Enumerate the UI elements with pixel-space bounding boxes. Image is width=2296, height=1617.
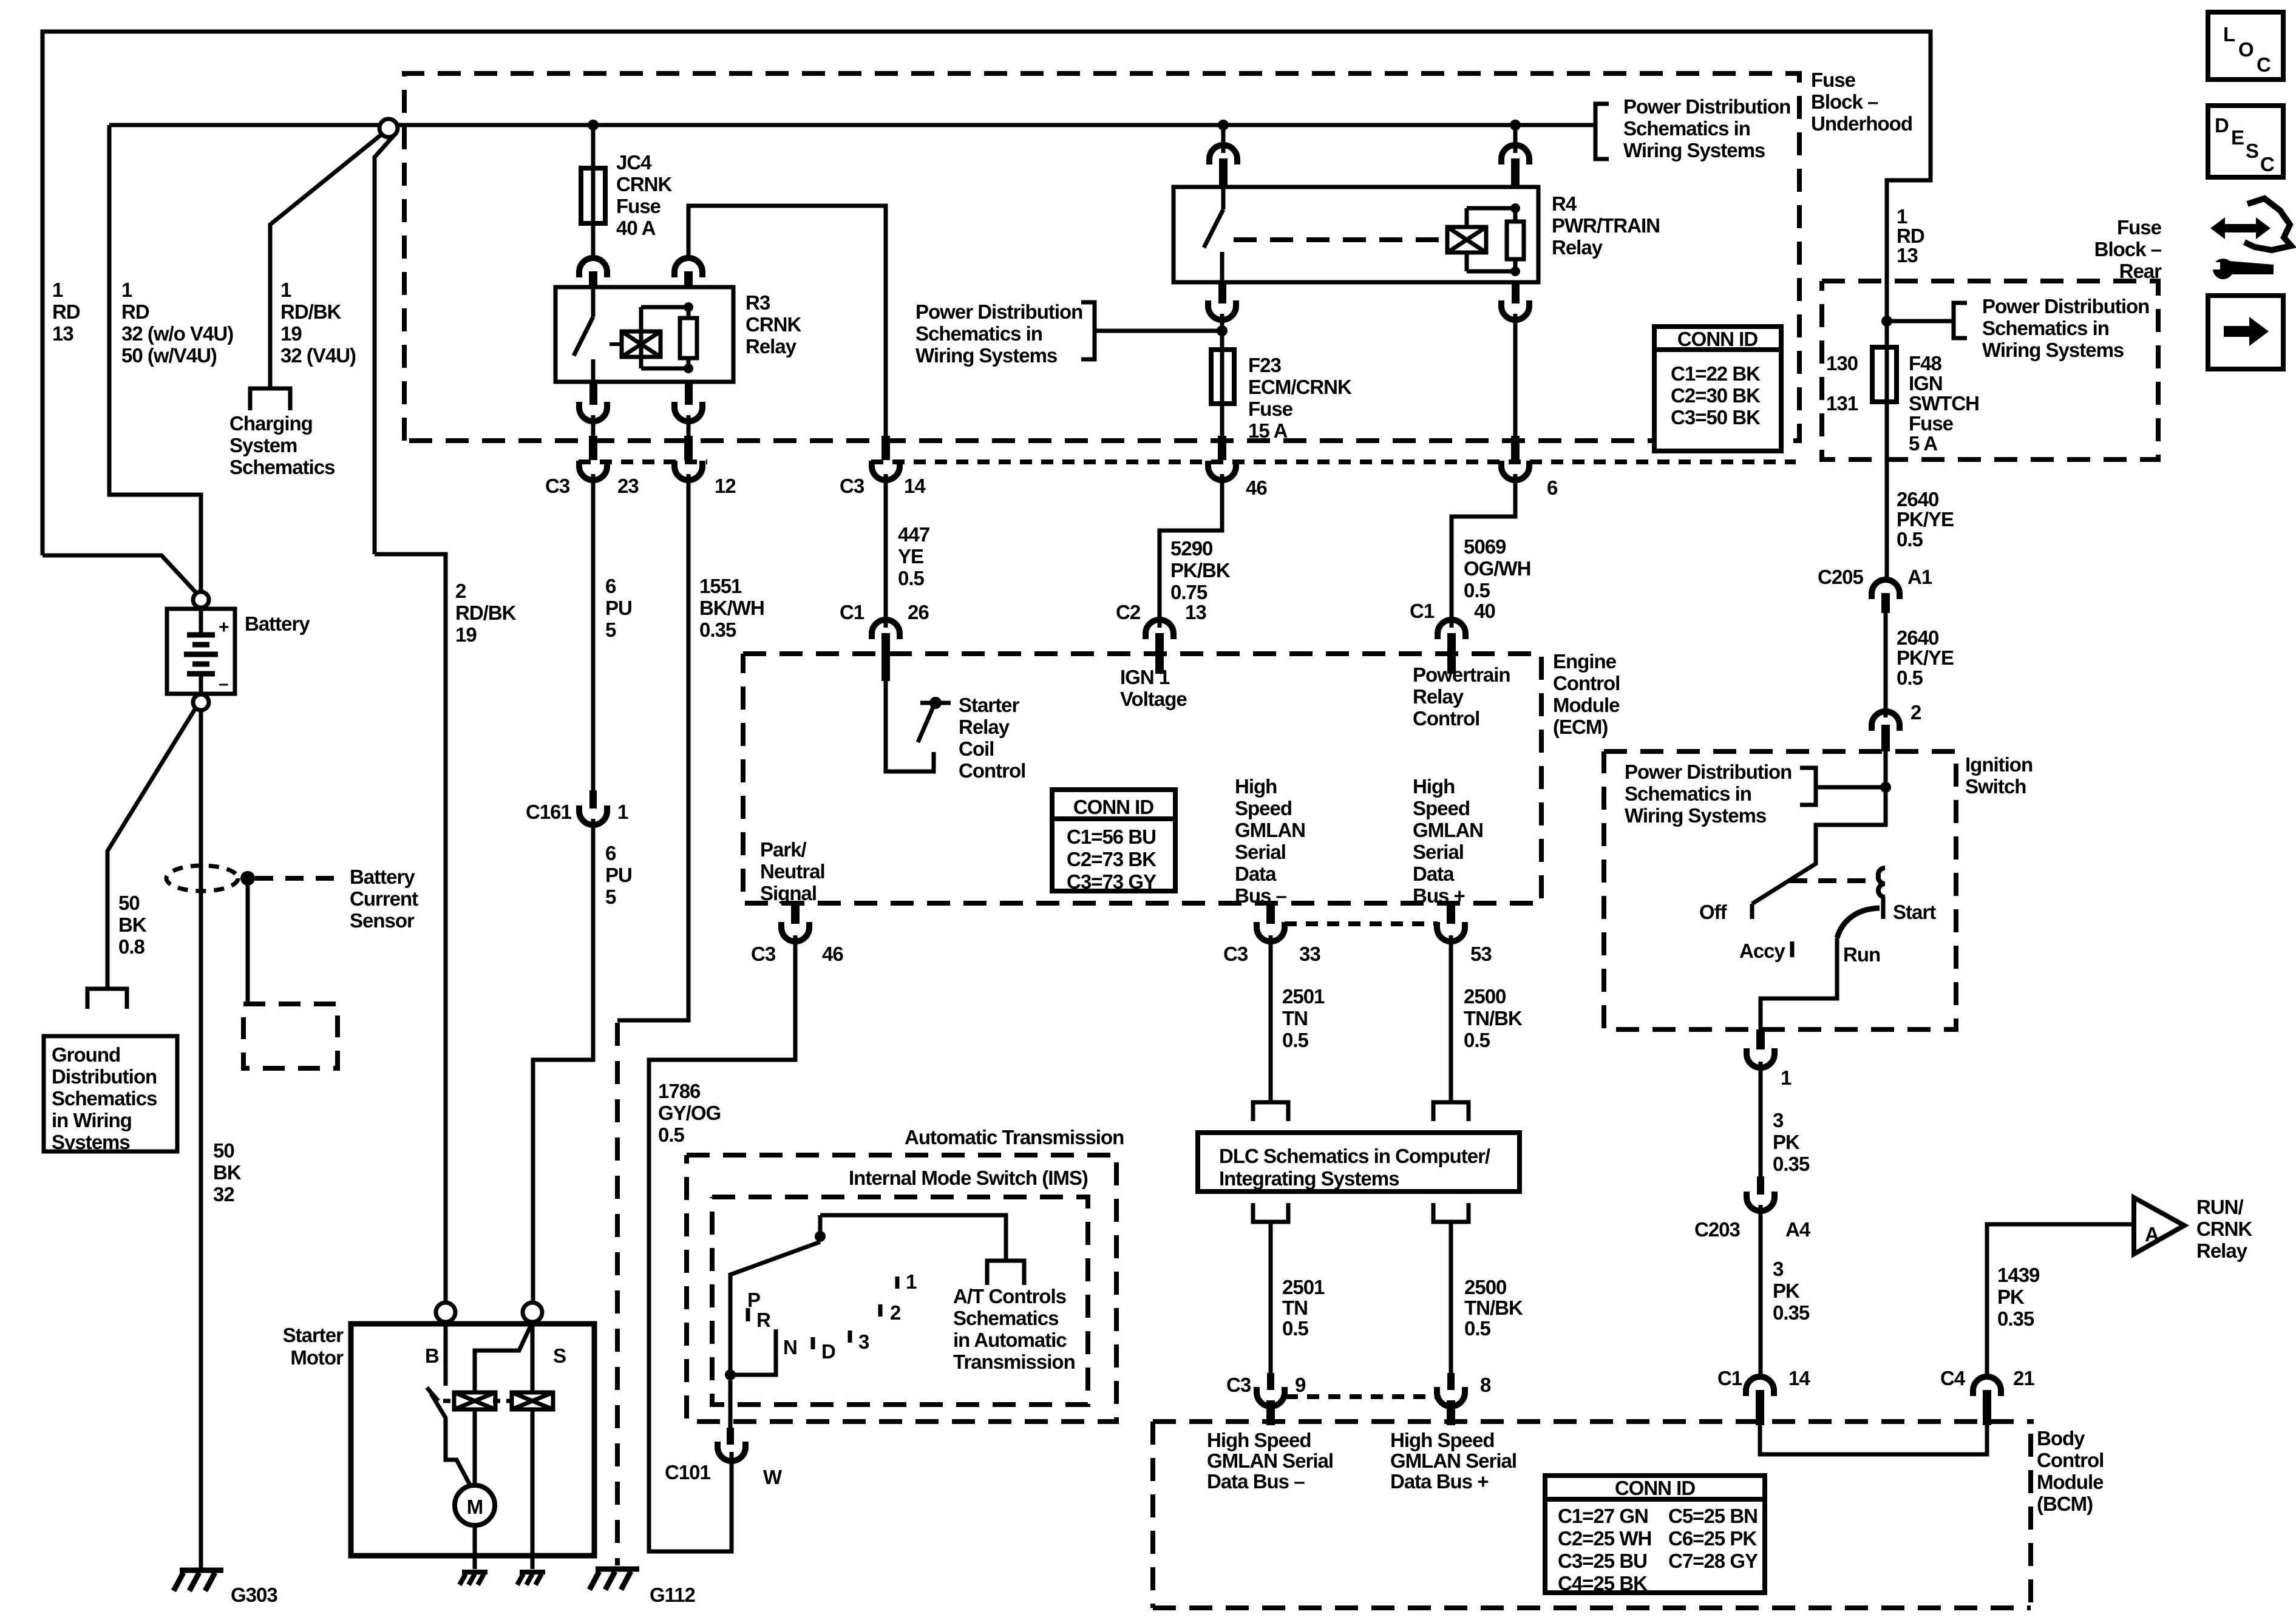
svg-text:C1: C1 — [840, 601, 864, 623]
svg-text:GMLAN Serial: GMLAN Serial — [1207, 1449, 1333, 1472]
svg-text:TN: TN — [1282, 1297, 1308, 1319]
svg-text:46: 46 — [822, 943, 843, 965]
svg-text:2501: 2501 — [1282, 985, 1325, 1008]
svg-text:Accy: Accy — [1739, 940, 1786, 962]
svg-text:1786: 1786 — [658, 1080, 701, 1102]
svg-text:C3: C3 — [840, 475, 864, 497]
svg-text:21: 21 — [2013, 1367, 2034, 1389]
svg-text:System: System — [229, 434, 297, 456]
svg-text:Fuse: Fuse — [616, 195, 661, 217]
svg-text:6: 6 — [605, 575, 616, 597]
svg-text:Bus –: Bus – — [1235, 884, 1287, 907]
svg-text:19: 19 — [280, 322, 302, 345]
svg-text:IGN: IGN — [1909, 372, 1943, 395]
svg-text:50: 50 — [118, 892, 140, 914]
svg-text:Automatic Transmission: Automatic Transmission — [905, 1126, 1124, 1148]
svg-text:50: 50 — [213, 1139, 234, 1162]
svg-text:C1=56 BU: C1=56 BU — [1067, 825, 1156, 848]
svg-text:Fuse: Fuse — [1909, 412, 1954, 435]
svg-text:Control: Control — [1413, 707, 1479, 730]
svg-text:R4: R4 — [1552, 192, 1577, 215]
svg-text:3: 3 — [1773, 1258, 1784, 1280]
svg-text:C4=25 BK: C4=25 BK — [1558, 1572, 1648, 1595]
svg-text:13: 13 — [1185, 601, 1206, 623]
svg-text:RD: RD — [121, 300, 149, 323]
svg-text:6: 6 — [1547, 476, 1558, 499]
svg-text:N: N — [783, 1336, 797, 1358]
svg-text:Run: Run — [1843, 943, 1880, 966]
svg-text:D: D — [821, 1340, 835, 1363]
svg-text:OG/WH: OG/WH — [1464, 557, 1530, 580]
svg-text:PK/BK: PK/BK — [1170, 559, 1231, 581]
svg-text:CRNK: CRNK — [616, 173, 672, 195]
svg-text:GY/OG: GY/OG — [658, 1102, 721, 1124]
svg-text:Power Distribution: Power Distribution — [1982, 295, 2149, 317]
svg-text:Systems: Systems — [52, 1131, 130, 1153]
svg-text:Rear: Rear — [2119, 260, 2162, 282]
svg-text:A: A — [2145, 1223, 2159, 1246]
svg-text:CONN ID: CONN ID — [1615, 1477, 1696, 1499]
svg-text:PK: PK — [1773, 1131, 1800, 1153]
svg-text:TN: TN — [1282, 1007, 1308, 1029]
svg-text:E: E — [2231, 126, 2244, 149]
svg-text:131: 131 — [1826, 392, 1858, 415]
svg-text:Power Distribution: Power Distribution — [915, 300, 1082, 323]
svg-text:2640: 2640 — [1897, 488, 1938, 510]
svg-text:0.5: 0.5 — [1464, 1317, 1491, 1340]
svg-text:C1: C1 — [1410, 600, 1435, 622]
svg-text:(BCM): (BCM) — [2037, 1493, 2093, 1515]
svg-text:Battery: Battery — [350, 866, 415, 888]
svg-text:PK/YE: PK/YE — [1897, 646, 1954, 669]
svg-text:Wiring Systems: Wiring Systems — [915, 344, 1057, 367]
svg-text:13: 13 — [1897, 244, 1918, 266]
svg-text:14: 14 — [904, 475, 926, 497]
svg-text:5290: 5290 — [1170, 537, 1212, 560]
svg-text:Start: Start — [1893, 901, 1936, 923]
svg-text:1439: 1439 — [1997, 1264, 2040, 1286]
svg-text:Schematics in: Schematics in — [1623, 117, 1750, 140]
svg-text:2: 2 — [890, 1301, 901, 1324]
svg-text:in Automatic: in Automatic — [953, 1329, 1067, 1351]
svg-text:5: 5 — [605, 886, 616, 908]
svg-text:Schematics in: Schematics in — [915, 322, 1042, 345]
svg-text:2500: 2500 — [1464, 985, 1506, 1008]
svg-text:BK: BK — [118, 914, 147, 936]
svg-text:0.75: 0.75 — [1170, 581, 1207, 603]
svg-text:Coil: Coil — [959, 737, 994, 760]
svg-text:0.35: 0.35 — [1773, 1301, 1810, 1324]
svg-text:0.35: 0.35 — [1773, 1153, 1810, 1175]
svg-text:S: S — [553, 1344, 566, 1367]
svg-text:Relay: Relay — [959, 716, 1010, 738]
svg-text:Ignition: Ignition — [1965, 753, 2033, 776]
svg-text:O: O — [2238, 38, 2254, 61]
svg-text:1: 1 — [906, 1270, 917, 1293]
svg-text:2: 2 — [455, 580, 466, 602]
svg-text:0.5: 0.5 — [1282, 1317, 1309, 1340]
svg-text:C3: C3 — [751, 943, 776, 965]
svg-text:C: C — [2257, 53, 2271, 76]
svg-text:L: L — [2223, 23, 2235, 46]
svg-text:32 (w/o V4U): 32 (w/o V4U) — [121, 322, 233, 345]
svg-text:F48: F48 — [1909, 352, 1942, 375]
svg-text:G303: G303 — [231, 1584, 277, 1606]
svg-text:Park/: Park/ — [760, 838, 807, 861]
svg-text:Fuse: Fuse — [2117, 216, 2162, 239]
svg-text:A1: A1 — [1907, 566, 1932, 588]
svg-text:Underhood: Underhood — [1811, 112, 1912, 135]
svg-text:R: R — [756, 1309, 771, 1331]
svg-text:C1=27 GN: C1=27 GN — [1558, 1505, 1648, 1527]
svg-text:6: 6 — [605, 842, 616, 864]
svg-text:High Speed: High Speed — [1207, 1429, 1311, 1451]
svg-text:Module: Module — [2037, 1471, 2104, 1493]
svg-text:PK: PK — [1997, 1286, 2025, 1308]
svg-text:Serial: Serial — [1235, 841, 1286, 863]
svg-text:(ECM): (ECM) — [1553, 716, 1608, 738]
svg-text:YE: YE — [898, 545, 923, 568]
svg-text:Data Bus –: Data Bus – — [1207, 1470, 1305, 1493]
svg-text:1: 1 — [121, 279, 132, 301]
svg-text:Sensor: Sensor — [350, 909, 415, 932]
svg-text:C1=22 BK: C1=22 BK — [1671, 362, 1761, 385]
svg-text:C3=50 BK: C3=50 BK — [1671, 406, 1761, 429]
svg-text:130: 130 — [1826, 352, 1858, 375]
svg-text:Charging: Charging — [229, 412, 313, 435]
svg-text:15 A: 15 A — [1248, 419, 1288, 442]
svg-text:32: 32 — [213, 1183, 234, 1205]
svg-text:C5=25 BN: C5=25 BN — [1668, 1505, 1758, 1527]
svg-text:C2=25 WH: C2=25 WH — [1558, 1527, 1651, 1550]
svg-text:R3: R3 — [746, 291, 770, 314]
svg-text:C6=25 PK: C6=25 PK — [1668, 1527, 1757, 1550]
svg-text:0.5: 0.5 — [658, 1124, 685, 1146]
svg-text:+: + — [219, 617, 229, 637]
svg-text:0.5: 0.5 — [1282, 1029, 1309, 1051]
svg-text:5: 5 — [605, 619, 616, 641]
svg-text:8: 8 — [1480, 1374, 1491, 1396]
svg-text:M: M — [467, 1496, 483, 1518]
svg-text:G112: G112 — [650, 1584, 696, 1606]
svg-text:C7=28 GY: C7=28 GY — [1668, 1550, 1758, 1572]
svg-text:Ground: Ground — [52, 1043, 120, 1066]
svg-text:1: 1 — [52, 279, 63, 301]
svg-text:447: 447 — [898, 523, 929, 546]
svg-text:GMLAN: GMLAN — [1235, 819, 1305, 841]
svg-text:2500: 2500 — [1464, 1276, 1506, 1298]
svg-text:40 A: 40 A — [616, 217, 656, 239]
svg-text:Power Distribution: Power Distribution — [1625, 761, 1792, 783]
svg-text:C2=30 BK: C2=30 BK — [1671, 384, 1761, 407]
svg-text:D: D — [2215, 114, 2229, 137]
svg-text:Bus +: Bus + — [1413, 884, 1465, 907]
svg-text:1551: 1551 — [699, 575, 742, 597]
svg-text:1: 1 — [1781, 1066, 1792, 1089]
svg-text:DLC Schematics in Computer/: DLC Schematics in Computer/ — [1219, 1145, 1490, 1167]
svg-text:PU: PU — [605, 597, 632, 619]
svg-text:3: 3 — [858, 1331, 869, 1353]
svg-text:PU: PU — [605, 864, 632, 886]
svg-text:CRNK: CRNK — [2196, 1218, 2252, 1240]
svg-text:0.35: 0.35 — [699, 619, 736, 641]
svg-text:RD: RD — [52, 300, 80, 323]
svg-text:13: 13 — [52, 322, 73, 345]
svg-text:0.5: 0.5 — [1464, 579, 1490, 602]
svg-text:C3=25 BU: C3=25 BU — [1558, 1550, 1647, 1572]
svg-text:46: 46 — [1246, 476, 1267, 499]
svg-text:5069: 5069 — [1464, 535, 1506, 558]
svg-text:High Speed: High Speed — [1390, 1429, 1495, 1451]
svg-text:Fuse: Fuse — [1811, 69, 1856, 91]
svg-text:TN/BK: TN/BK — [1464, 1007, 1523, 1029]
svg-text:Control: Control — [2037, 1449, 2104, 1471]
svg-text:A4: A4 — [1785, 1218, 1811, 1241]
svg-text:53: 53 — [1470, 943, 1492, 965]
svg-text:SWTCH: SWTCH — [1909, 392, 1979, 415]
svg-text:GMLAN Serial: GMLAN Serial — [1390, 1449, 1517, 1472]
svg-text:IGN 1: IGN 1 — [1120, 666, 1170, 688]
svg-text:Switch: Switch — [1965, 775, 2026, 798]
svg-text:RD/BK: RD/BK — [455, 602, 517, 624]
svg-text:Relay: Relay — [1552, 236, 1603, 259]
svg-text:2501: 2501 — [1282, 1276, 1325, 1298]
svg-text:Schematics: Schematics — [229, 456, 335, 478]
svg-text:C3: C3 — [1223, 943, 1248, 965]
svg-text:Data Bus +: Data Bus + — [1390, 1470, 1488, 1493]
svg-text:40: 40 — [1474, 600, 1495, 622]
svg-text:C4: C4 — [1940, 1367, 1966, 1389]
svg-text:Relay: Relay — [746, 335, 797, 358]
svg-text:Body: Body — [2037, 1427, 2085, 1449]
svg-text:BK/WH: BK/WH — [699, 597, 764, 619]
svg-text:1: 1 — [280, 279, 291, 301]
svg-text:Relay: Relay — [2196, 1239, 2248, 1262]
svg-text:26: 26 — [908, 601, 929, 623]
svg-text:2640: 2640 — [1897, 626, 1938, 649]
svg-text:GMLAN: GMLAN — [1413, 819, 1483, 841]
svg-text:Control: Control — [959, 759, 1025, 782]
svg-text:12: 12 — [715, 475, 736, 497]
svg-text:32 (V4U): 32 (V4U) — [280, 344, 356, 367]
svg-text:PWR/TRAIN: PWR/TRAIN — [1552, 214, 1660, 237]
svg-text:W: W — [763, 1466, 783, 1488]
svg-text:ECM/CRNK: ECM/CRNK — [1248, 376, 1352, 398]
svg-text:P: P — [747, 1289, 760, 1311]
svg-text:Fuse: Fuse — [1248, 398, 1293, 420]
svg-text:C2: C2 — [1116, 601, 1141, 623]
svg-text:C205: C205 — [1818, 566, 1864, 588]
svg-text:Serial: Serial — [1413, 841, 1464, 863]
svg-text:F23: F23 — [1248, 354, 1282, 376]
svg-text:C3: C3 — [545, 475, 570, 497]
svg-text:Schematics: Schematics — [953, 1307, 1058, 1329]
svg-text:0.5: 0.5 — [1897, 666, 1923, 689]
svg-text:Speed: Speed — [1235, 797, 1292, 819]
svg-text:C3=73 GY: C3=73 GY — [1067, 870, 1156, 893]
svg-text:9: 9 — [1295, 1374, 1306, 1396]
svg-text:Voltage: Voltage — [1120, 688, 1187, 710]
svg-text:1: 1 — [617, 801, 628, 823]
svg-text:Neutral: Neutral — [760, 860, 825, 883]
svg-text:C2=73 BK: C2=73 BK — [1067, 848, 1156, 870]
svg-text:5 A: 5 A — [1909, 432, 1937, 455]
svg-text:Relay: Relay — [1413, 685, 1464, 708]
svg-text:Integrating Systems: Integrating Systems — [1219, 1167, 1399, 1190]
svg-text:Wiring Systems: Wiring Systems — [1623, 139, 1765, 161]
svg-text:Battery: Battery — [245, 612, 310, 635]
svg-text:C3: C3 — [1226, 1374, 1251, 1396]
svg-text:3: 3 — [1773, 1109, 1784, 1131]
svg-text:Control: Control — [1553, 672, 1620, 694]
svg-text:High: High — [1235, 775, 1277, 798]
svg-text:C1: C1 — [1717, 1367, 1742, 1389]
svg-text:14: 14 — [1788, 1367, 1810, 1389]
svg-text:JC4: JC4 — [616, 151, 652, 174]
svg-text:Current: Current — [350, 887, 418, 910]
svg-text:Block –: Block – — [2094, 238, 2162, 260]
svg-text:Wiring Systems: Wiring Systems — [1982, 339, 2124, 361]
svg-text:RUN/: RUN/ — [2196, 1196, 2243, 1218]
svg-text:19: 19 — [455, 623, 477, 646]
svg-text:A/T Controls: A/T Controls — [953, 1285, 1066, 1307]
svg-text:Schematics in: Schematics in — [1982, 317, 2109, 339]
svg-text:Wiring Systems: Wiring Systems — [1625, 804, 1766, 827]
svg-text:C101: C101 — [665, 1461, 711, 1483]
svg-text:PK: PK — [1773, 1280, 1800, 1302]
svg-text:Data: Data — [1235, 863, 1277, 885]
svg-text:23: 23 — [617, 475, 639, 497]
svg-text:2: 2 — [1911, 701, 1921, 724]
svg-text:Block –: Block – — [1811, 90, 1878, 113]
svg-text:Distribution: Distribution — [52, 1065, 157, 1088]
svg-text:Signal: Signal — [760, 882, 817, 904]
svg-text:Schematics: Schematics — [52, 1087, 157, 1110]
svg-text:BK: BK — [213, 1161, 242, 1184]
svg-text:–: – — [219, 674, 229, 694]
svg-text:Power Distribution: Power Distribution — [1623, 95, 1790, 118]
svg-text:CONN ID: CONN ID — [1677, 328, 1758, 350]
svg-text:Motor: Motor — [290, 1346, 344, 1369]
svg-text:0.5: 0.5 — [1464, 1029, 1490, 1051]
svg-text:in Wiring: in Wiring — [52, 1109, 132, 1131]
svg-text:Internal Mode Switch (IMS): Internal Mode Switch (IMS) — [849, 1167, 1088, 1189]
svg-text:0.5: 0.5 — [898, 567, 925, 589]
svg-text:Speed: Speed — [1413, 797, 1470, 819]
svg-text:Engine: Engine — [1553, 650, 1617, 673]
svg-text:PK/YE: PK/YE — [1897, 508, 1954, 531]
svg-text:Starter: Starter — [283, 1324, 344, 1346]
svg-text:C203: C203 — [1694, 1218, 1741, 1241]
svg-text:Transmission: Transmission — [953, 1351, 1075, 1373]
svg-text:C161: C161 — [526, 801, 572, 823]
svg-text:Schematics in: Schematics in — [1625, 782, 1751, 805]
svg-text:S: S — [2246, 140, 2258, 162]
svg-text:0.8: 0.8 — [118, 935, 145, 958]
svg-text:B: B — [425, 1344, 439, 1367]
svg-text:0.5: 0.5 — [1897, 528, 1923, 551]
svg-text:33: 33 — [1299, 943, 1320, 965]
svg-text:0.35: 0.35 — [1997, 1307, 2034, 1330]
svg-text:Data: Data — [1413, 863, 1455, 885]
svg-text:50 (w/V4U): 50 (w/V4U) — [121, 344, 217, 367]
svg-text:TN/BK: TN/BK — [1464, 1297, 1523, 1319]
svg-text:Starter: Starter — [959, 694, 1020, 716]
svg-text:Off: Off — [1699, 901, 1728, 923]
svg-text:C: C — [2260, 153, 2274, 175]
svg-text:Module: Module — [1553, 694, 1620, 716]
svg-text:CONN ID: CONN ID — [1073, 796, 1154, 818]
svg-text:High: High — [1413, 775, 1455, 798]
svg-text:CRNK: CRNK — [746, 313, 801, 336]
svg-text:RD/BK: RD/BK — [280, 300, 342, 323]
svg-text:Powertrain: Powertrain — [1413, 663, 1510, 686]
